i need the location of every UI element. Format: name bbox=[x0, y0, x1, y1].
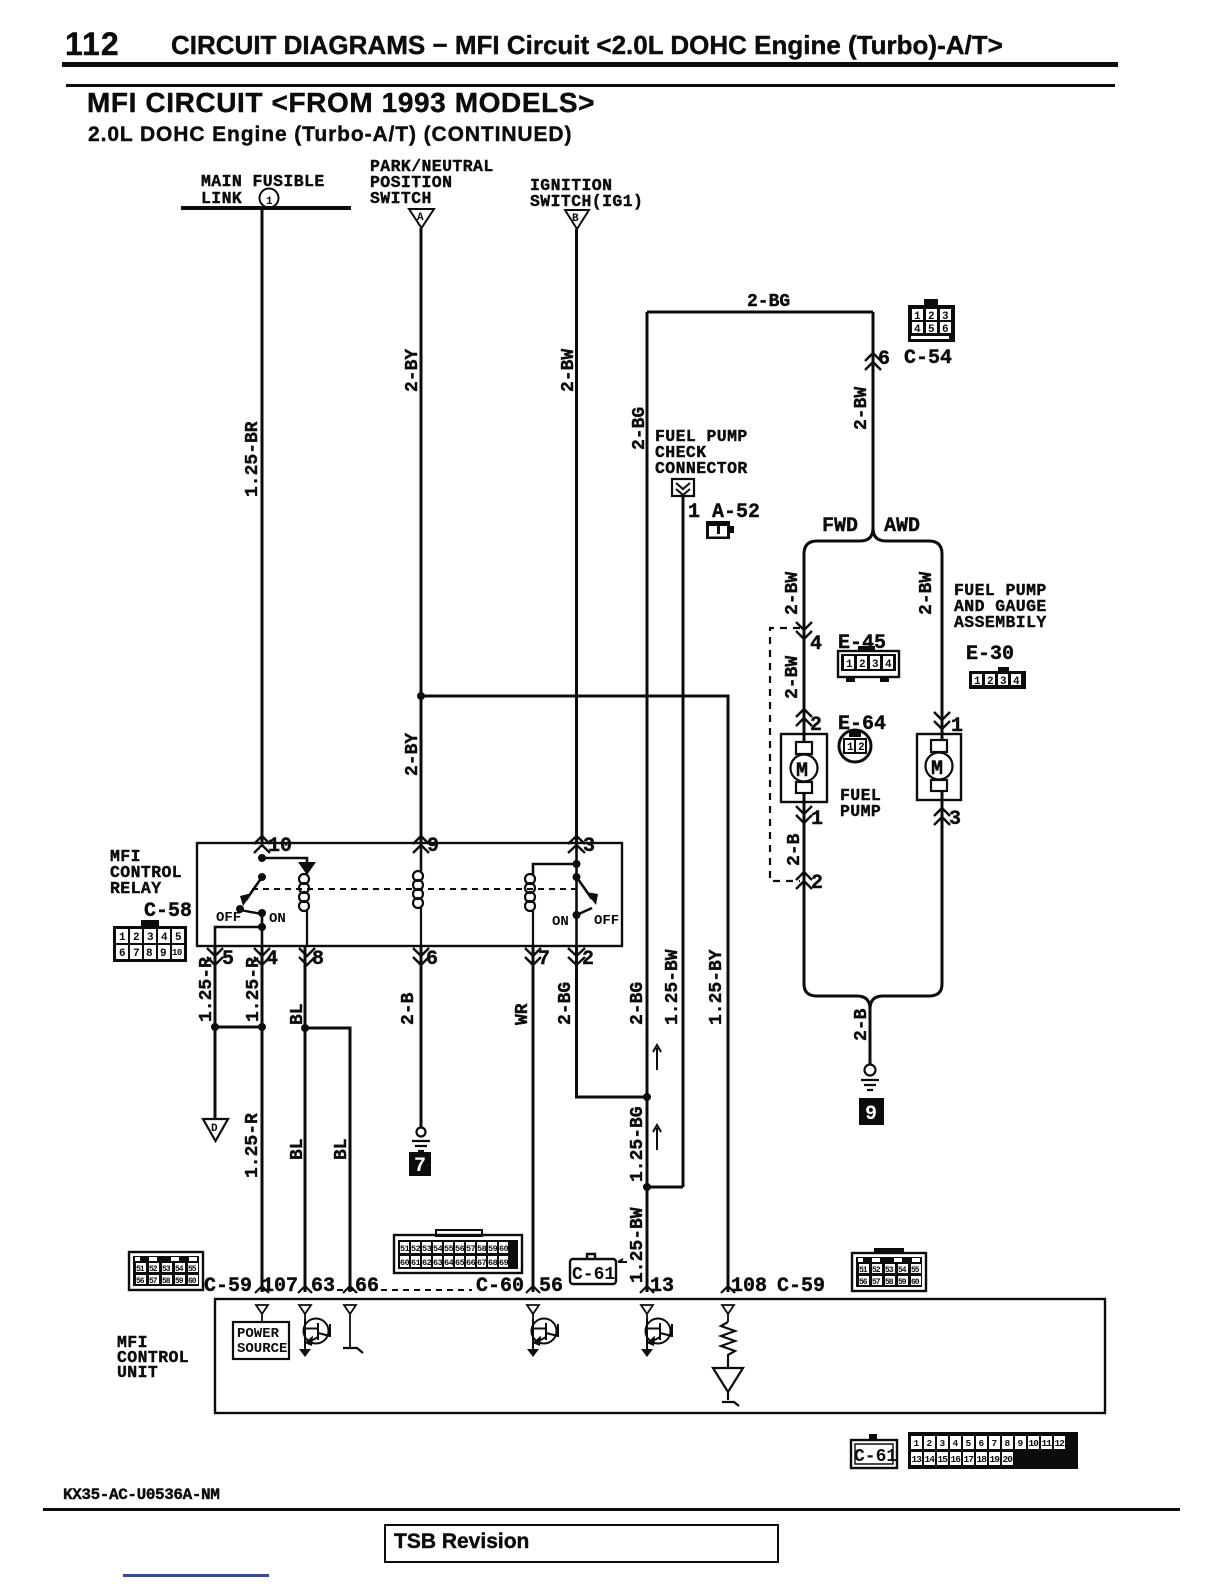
svg-text:1.25-BY: 1.25-BY bbox=[707, 949, 727, 1025]
svg-text:6: 6 bbox=[426, 948, 438, 971]
svg-text:67: 67 bbox=[477, 1258, 487, 1268]
svg-text:WR: WR bbox=[513, 1003, 533, 1025]
pin 2 arrow E-64 bbox=[796, 709, 812, 726]
ECU pin triangle 63 bbox=[299, 1305, 311, 1319]
svg-text:55: 55 bbox=[911, 1266, 920, 1275]
svg-text:1.25-R: 1.25-R bbox=[197, 957, 217, 1022]
svg-text:63: 63 bbox=[311, 1275, 335, 1298]
svg-text:3: 3 bbox=[583, 835, 595, 858]
svg-text:17: 17 bbox=[964, 1454, 975, 1465]
section title bbox=[87, 87, 595, 119]
relay bottom pin 2 arrow bbox=[568, 948, 585, 965]
svg-text:ASSEMBILY: ASSEMBILY bbox=[954, 613, 1047, 632]
svg-text:D: D bbox=[211, 1123, 218, 1135]
ECU pin triangle 107 bbox=[256, 1305, 268, 1322]
svg-text:65: 65 bbox=[455, 1258, 465, 1268]
wire pin7 down to ECU 56 bbox=[532, 946, 535, 1292]
link check connector wire to main bbox=[647, 1186, 683, 1189]
svg-text:51: 51 bbox=[859, 1266, 868, 1275]
svg-text:2-BG: 2-BG bbox=[747, 292, 790, 312]
svg-text:2-BW: 2-BW bbox=[783, 656, 803, 699]
svg-text:C-59: C-59 bbox=[204, 1275, 252, 1298]
svg-text:UNIT: UNIT bbox=[117, 1363, 158, 1382]
svg-text:10: 10 bbox=[1029, 1438, 1040, 1449]
C-61 box pin tick bbox=[618, 1259, 627, 1262]
connector triangle B bbox=[565, 210, 589, 229]
svg-text:1 A-52: 1 A-52 bbox=[688, 501, 760, 524]
wire pin2 down and over to 2-BG wire bbox=[577, 946, 648, 1097]
svg-text:2-BY: 2-BY bbox=[403, 349, 423, 392]
svg-text:3: 3 bbox=[1000, 676, 1007, 688]
dashed harness line bbox=[337, 1289, 472, 1291]
pin 6 arrow C-54 bbox=[865, 353, 881, 370]
ECU pin triangle 66 bbox=[344, 1305, 356, 1347]
svg-text:1.25-R: 1.25-R bbox=[243, 1113, 263, 1178]
svg-text:5: 5 bbox=[222, 948, 234, 971]
svg-text:52: 52 bbox=[149, 1265, 158, 1274]
pin 1 arrow AWD motor bbox=[934, 712, 950, 729]
TSB revision box bbox=[384, 1524, 779, 1563]
fusible link circle 1 bbox=[260, 189, 279, 209]
relay bottom pin 5 arrow bbox=[207, 948, 223, 965]
transistor 56 bbox=[527, 1319, 558, 1358]
svg-text:RELAY: RELAY bbox=[110, 879, 162, 898]
svg-text:56: 56 bbox=[455, 1244, 465, 1254]
pin 10 arrow bbox=[254, 836, 270, 853]
ignition switch label bbox=[530, 176, 643, 211]
power source label bbox=[237, 1326, 287, 1357]
svg-text:C-59: C-59 bbox=[777, 1275, 825, 1298]
wire 2-BW down to C-54 and FWD/AWD fork bbox=[872, 312, 875, 528]
svg-text:2-BG: 2-BG bbox=[628, 982, 648, 1025]
MFI control relay box bbox=[197, 843, 622, 946]
svg-text:13: 13 bbox=[650, 1275, 674, 1298]
MFI control relay label bbox=[110, 847, 182, 898]
left ON contact node bbox=[258, 909, 266, 917]
svg-text:2: 2 bbox=[133, 932, 140, 944]
svg-text:52: 52 bbox=[872, 1266, 881, 1275]
fuel pump motor FWD box bbox=[781, 734, 827, 802]
svg-text:63: 63 bbox=[433, 1258, 443, 1268]
svg-text:8: 8 bbox=[312, 948, 324, 971]
svg-text:56: 56 bbox=[136, 1277, 145, 1286]
svg-text:C-60: C-60 bbox=[476, 1275, 524, 1298]
ECU pin triangle 56 bbox=[527, 1305, 539, 1319]
right ON contact node bbox=[573, 911, 581, 919]
svg-text:CONNECTOR: CONNECTOR bbox=[655, 459, 748, 478]
svg-text:60: 60 bbox=[188, 1277, 197, 1286]
svg-text:A: A bbox=[417, 212, 424, 224]
svg-text:8: 8 bbox=[146, 948, 153, 960]
svg-text:108: 108 bbox=[731, 1275, 767, 1298]
left OFF contact node bbox=[236, 905, 244, 913]
svg-text:4: 4 bbox=[885, 659, 892, 671]
svg-text:56: 56 bbox=[859, 1278, 868, 1287]
FWD/AWD fork bbox=[804, 528, 942, 734]
node pin5 junction bbox=[211, 1023, 219, 1031]
svg-text:58: 58 bbox=[477, 1244, 487, 1254]
wire pin3 to coil3 bbox=[533, 864, 577, 875]
footer doc code bbox=[63, 1486, 219, 1504]
pin 3 arrow bbox=[568, 836, 585, 853]
wire pin4 down to ECU 107 bbox=[261, 946, 264, 1292]
wire 2-BW ignition to relay pin 3 bbox=[575, 229, 578, 843]
svg-text:POWER: POWER bbox=[237, 1326, 280, 1342]
svg-text:57: 57 bbox=[149, 1277, 158, 1286]
node 2-BG merge bbox=[643, 1093, 651, 1101]
svg-text:1: 1 bbox=[846, 659, 853, 671]
svg-text:60: 60 bbox=[400, 1258, 410, 1268]
pin 2 arrow at dashed box bottom bbox=[796, 872, 812, 889]
fuel pump label bbox=[840, 786, 881, 821]
connector C-61 bottom label box bbox=[851, 1434, 897, 1468]
ECU pin triangle 108 bbox=[722, 1305, 734, 1322]
wire 2-BG horizontal top bbox=[647, 311, 873, 314]
connector E-64 icon bbox=[839, 730, 871, 762]
pin 4 arrow E-45 bbox=[796, 622, 812, 639]
svg-text:2-BY: 2-BY bbox=[403, 733, 423, 776]
svg-text:10: 10 bbox=[268, 835, 292, 858]
node pin4 junction bbox=[258, 1023, 266, 1031]
resistor 108 bbox=[721, 1322, 735, 1368]
power source box bbox=[233, 1322, 289, 1359]
svg-text:4: 4 bbox=[161, 932, 168, 944]
svg-text:2: 2 bbox=[987, 676, 994, 688]
wire 66 stub end bbox=[343, 1348, 363, 1353]
relay bottom pin 4 arrow bbox=[254, 948, 270, 965]
flow arrow upper bbox=[653, 1045, 661, 1070]
svg-text:57: 57 bbox=[466, 1244, 476, 1254]
main fusible link label bbox=[201, 172, 325, 208]
svg-text:PUMP: PUMP bbox=[840, 802, 881, 821]
pin 56 entry arrow bbox=[526, 1286, 540, 1293]
svg-text:C-54: C-54 bbox=[904, 347, 952, 370]
svg-text:19: 19 bbox=[990, 1454, 1001, 1465]
svg-text:3: 3 bbox=[949, 808, 961, 831]
ECU pin triangle 13 bbox=[641, 1305, 653, 1319]
svg-text:SWITCH: SWITCH bbox=[370, 189, 432, 208]
svg-text:6: 6 bbox=[878, 348, 890, 371]
right switch arm bbox=[577, 877, 593, 899]
connector E-30 icon bbox=[969, 667, 1026, 689]
relay actuation dashed link bbox=[252, 888, 578, 890]
svg-text:1.25-R: 1.25-R bbox=[244, 957, 264, 1022]
wire through AWD motor bbox=[941, 556, 944, 984]
ground 9 symbol bbox=[861, 1065, 879, 1091]
svg-text:SWITCH(IG1): SWITCH(IG1) bbox=[530, 192, 643, 211]
svg-text:2-BW: 2-BW bbox=[852, 387, 872, 430]
connector C-59 left icon bbox=[129, 1252, 203, 1290]
svg-text:107: 107 bbox=[262, 1275, 298, 1298]
connector A-52 icon bbox=[706, 521, 734, 539]
svg-text:2-BG: 2-BG bbox=[630, 407, 650, 450]
svg-text:2-B: 2-B bbox=[852, 1008, 872, 1041]
node relay pin10 junction bbox=[258, 854, 266, 862]
relay coil 3 bbox=[525, 874, 535, 946]
wire pin9 through coil2 bbox=[420, 843, 423, 871]
right switch arrowhead bbox=[586, 892, 598, 905]
wire 1.25-BR from fusible link to relay pin 10 bbox=[261, 210, 264, 843]
pin 3 arrow below AWD motor bbox=[934, 808, 950, 825]
svg-text:3: 3 bbox=[872, 659, 879, 671]
connector triangle D bbox=[203, 1119, 228, 1141]
link pin5 to pin4 wire bbox=[215, 1026, 262, 1029]
svg-text:BL: BL bbox=[288, 1003, 308, 1025]
svg-text:1: 1 bbox=[847, 742, 854, 754]
pin 9 arrow bbox=[413, 836, 429, 853]
svg-text:51: 51 bbox=[136, 1265, 145, 1274]
left switch pivot node bbox=[258, 873, 266, 881]
svg-text:68: 68 bbox=[488, 1258, 498, 1268]
fuel pump motor AWD box bbox=[917, 734, 961, 800]
svg-text:9: 9 bbox=[865, 1103, 877, 1126]
left switch arm bbox=[246, 877, 262, 900]
svg-text:55: 55 bbox=[444, 1244, 454, 1254]
relay bottom pin 6 arrow bbox=[413, 948, 429, 965]
relay coil 1 bbox=[299, 874, 309, 946]
svg-text:69: 69 bbox=[499, 1258, 509, 1268]
pin 107 entry arrow bbox=[255, 1286, 269, 1293]
connector E-45 icon bbox=[838, 646, 899, 682]
wire 2-BY from switch A to relay pin 9 bbox=[420, 228, 423, 843]
MFI control unit label bbox=[117, 1333, 189, 1382]
motor FWD terminals and M circle bbox=[791, 742, 818, 793]
svg-text:LINK: LINK bbox=[201, 189, 242, 208]
connector C-59 right icon bbox=[852, 1248, 926, 1291]
MFI control unit box bbox=[215, 1299, 1105, 1413]
connector C-54 icon bbox=[908, 299, 955, 342]
svg-text:FWD: FWD bbox=[822, 515, 858, 538]
wire from check connector to junction bbox=[682, 496, 685, 1187]
svg-text:14: 14 bbox=[925, 1454, 936, 1465]
svg-text:13: 13 bbox=[912, 1454, 923, 1465]
svg-text:3: 3 bbox=[147, 932, 154, 944]
svg-text:61: 61 bbox=[411, 1258, 421, 1268]
svg-text:1.25-BW: 1.25-BW bbox=[628, 1207, 648, 1283]
svg-text:2: 2 bbox=[928, 311, 935, 323]
connector C-61 small icon bbox=[570, 1254, 616, 1285]
svg-text:B: B bbox=[572, 213, 579, 225]
footer rule bbox=[43, 1508, 1180, 1511]
svg-text:9: 9 bbox=[160, 948, 167, 960]
svg-text:AWD: AWD bbox=[884, 515, 920, 538]
svg-text:C-61: C-61 bbox=[572, 1265, 615, 1285]
svg-text:E-30: E-30 bbox=[966, 643, 1014, 666]
ground 9 page marker bbox=[859, 1098, 884, 1126]
right switch pivot node bbox=[573, 873, 581, 881]
svg-text:59: 59 bbox=[175, 1277, 184, 1286]
svg-text:54: 54 bbox=[433, 1244, 443, 1254]
flow arrow lower bbox=[653, 1125, 661, 1150]
transistor 13 bbox=[641, 1319, 672, 1358]
dashed FWD option box bbox=[770, 628, 800, 881]
pin 13 entry arrow bbox=[640, 1286, 654, 1293]
svg-text:M: M bbox=[931, 758, 943, 781]
svg-text:54: 54 bbox=[898, 1266, 907, 1275]
svg-text:55: 55 bbox=[188, 1265, 197, 1274]
svg-text:53: 53 bbox=[162, 1265, 171, 1274]
svg-text:2-B: 2-B bbox=[785, 833, 805, 866]
svg-text:C-58: C-58 bbox=[144, 900, 192, 923]
wire pin3 vertical bbox=[575, 843, 578, 946]
ground 7 page marker bbox=[409, 1152, 431, 1178]
park/neutral position switch label bbox=[370, 157, 494, 208]
svg-text:1: 1 bbox=[914, 311, 921, 323]
header thick rule bbox=[62, 62, 1118, 67]
svg-text:54: 54 bbox=[175, 1265, 184, 1274]
relay bottom pin 7 arrow bbox=[525, 948, 541, 965]
fuel pump and gauge assembly label bbox=[954, 581, 1047, 632]
connector triangle A bbox=[409, 209, 434, 228]
svg-text:4: 4 bbox=[266, 948, 278, 971]
svg-text:57: 57 bbox=[872, 1278, 881, 1287]
svg-text:1: 1 bbox=[974, 676, 981, 688]
wire ON junction to pin5 and pin4 bbox=[215, 913, 262, 946]
svg-text:4: 4 bbox=[914, 324, 921, 336]
svg-text:2-B: 2-B bbox=[399, 992, 419, 1025]
svg-text:64: 64 bbox=[444, 1258, 454, 1268]
svg-text:7: 7 bbox=[414, 1155, 426, 1178]
svg-text:1: 1 bbox=[119, 932, 126, 944]
left OFF-ON link bbox=[240, 910, 262, 914]
pin 108 entry arrow bbox=[721, 1286, 735, 1293]
svg-text:1: 1 bbox=[811, 808, 823, 831]
blue pen mark bbox=[123, 1574, 269, 1577]
connector C-61 bottom icon bbox=[908, 1432, 1078, 1469]
svg-text:16: 16 bbox=[951, 1454, 962, 1465]
svg-text:59: 59 bbox=[488, 1244, 498, 1254]
svg-text:1.25-BW: 1.25-BW bbox=[663, 949, 683, 1025]
right ON-OFF link bbox=[577, 908, 593, 915]
svg-text:12: 12 bbox=[1055, 1438, 1066, 1449]
motor AWD terminals and M circle bbox=[926, 740, 953, 791]
svg-text:66: 66 bbox=[355, 1275, 379, 1298]
svg-text:5: 5 bbox=[928, 324, 935, 336]
wire pin10 to diode branch bbox=[262, 858, 307, 862]
ground 7 symbol bbox=[412, 1128, 430, 1152]
svg-text:62: 62 bbox=[422, 1258, 432, 1268]
svg-text:53: 53 bbox=[422, 1244, 432, 1254]
svg-text:6: 6 bbox=[942, 324, 949, 336]
node pin8 junction bbox=[301, 1024, 309, 1032]
wire pin8 down to ECU 63 bbox=[304, 946, 307, 1292]
pin 1 arrow below FWD motor bbox=[796, 806, 812, 823]
svg-text:BL: BL bbox=[288, 1138, 308, 1160]
svg-text:11: 11 bbox=[1042, 1438, 1053, 1449]
svg-text:4: 4 bbox=[810, 633, 822, 656]
transistor 63 bbox=[299, 1319, 330, 1358]
svg-text:56: 56 bbox=[539, 1275, 563, 1298]
svg-text:2: 2 bbox=[582, 948, 594, 971]
svg-text:60: 60 bbox=[499, 1244, 509, 1254]
svg-text:1.25-BG: 1.25-BG bbox=[628, 1106, 648, 1182]
wire pin5 down to triangle D bbox=[214, 946, 217, 1119]
svg-text:53: 53 bbox=[885, 1266, 894, 1275]
svg-text:9: 9 bbox=[427, 835, 439, 858]
wire 2-BG down from corner to ECU pin 13 bbox=[646, 312, 649, 1292]
fusible link bus bar bbox=[181, 206, 351, 210]
svg-text:ON: ON bbox=[269, 911, 286, 927]
svg-text:2: 2 bbox=[811, 872, 823, 895]
svg-text:2: 2 bbox=[858, 742, 865, 754]
svg-text:M: M bbox=[796, 760, 808, 783]
wire from node to pin 108 column bbox=[421, 696, 728, 1292]
svg-text:2-BW: 2-BW bbox=[783, 572, 803, 615]
svg-text:SOURCE: SOURCE bbox=[237, 1341, 287, 1357]
pin 63 entry arrow bbox=[298, 1286, 312, 1293]
diode in relay bbox=[298, 862, 316, 875]
svg-text:15: 15 bbox=[938, 1454, 949, 1465]
header thin rule bbox=[66, 84, 1115, 87]
branch wire BL to ECU 66 bbox=[305, 1028, 350, 1292]
fuel pump check connector label bbox=[655, 427, 748, 478]
connector C-60 icon bbox=[394, 1230, 522, 1273]
svg-text:20: 20 bbox=[1003, 1454, 1014, 1465]
svg-text:ON: ON bbox=[552, 914, 569, 930]
svg-text:4: 4 bbox=[1013, 676, 1020, 688]
svg-text:OFF: OFF bbox=[594, 913, 619, 929]
page header title bbox=[171, 30, 1003, 61]
svg-text:58: 58 bbox=[885, 1278, 894, 1287]
node check connector merge bbox=[643, 1183, 651, 1191]
svg-text:OFF: OFF bbox=[216, 910, 241, 926]
diode triangle 108 bbox=[713, 1368, 743, 1406]
svg-text:66: 66 bbox=[466, 1258, 476, 1268]
relay bottom pin 8 arrow bbox=[299, 948, 315, 965]
svg-text:7: 7 bbox=[538, 948, 550, 971]
page header number bbox=[65, 26, 120, 63]
svg-text:C-61: C-61 bbox=[854, 1447, 897, 1467]
pump ground merge fork bbox=[804, 984, 942, 1064]
svg-text:60: 60 bbox=[911, 1278, 920, 1287]
node junction 2-BY to ECU branch bbox=[417, 692, 425, 700]
left switch arrowhead bbox=[240, 893, 252, 906]
svg-text:2-BW: 2-BW bbox=[559, 349, 579, 392]
svg-text:3: 3 bbox=[942, 311, 949, 323]
svg-text:58: 58 bbox=[162, 1277, 171, 1286]
wire pin6 down to ground 7 bbox=[420, 946, 423, 1128]
svg-text:51: 51 bbox=[400, 1244, 410, 1254]
svg-text:2-BG: 2-BG bbox=[556, 982, 576, 1025]
svg-text:18: 18 bbox=[977, 1454, 988, 1465]
svg-text:BL: BL bbox=[332, 1138, 352, 1160]
svg-text:7: 7 bbox=[133, 948, 140, 960]
connector C-58 icon bbox=[113, 920, 187, 962]
svg-text:10: 10 bbox=[172, 948, 182, 958]
relay coil 2 bbox=[413, 871, 423, 946]
svg-text:59: 59 bbox=[898, 1278, 907, 1287]
section subtitle bbox=[88, 123, 572, 147]
wire through FWD motor bbox=[803, 556, 806, 984]
svg-text:2: 2 bbox=[859, 659, 866, 671]
node ON junction bbox=[258, 923, 266, 931]
svg-text:2-BW: 2-BW bbox=[917, 572, 937, 615]
fuel pump check connector icon bbox=[672, 479, 694, 496]
svg-text:5: 5 bbox=[175, 932, 182, 944]
node right pin3 junction bbox=[573, 860, 581, 868]
svg-text:6: 6 bbox=[119, 948, 126, 960]
svg-text:52: 52 bbox=[411, 1244, 421, 1254]
pin 66 entry arrow bbox=[343, 1286, 357, 1293]
svg-text:1.25-BR: 1.25-BR bbox=[243, 421, 263, 497]
